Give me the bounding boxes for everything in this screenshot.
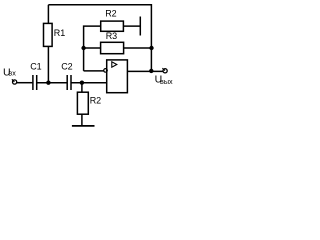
svg-text:R1: R1 xyxy=(54,28,66,38)
wire: inverting-node vertical (feedback branches) xyxy=(84,26,101,71)
svg-text:C2: C2 xyxy=(61,61,73,71)
wire: R2 bottom lead to ground xyxy=(81,114,83,126)
wire: op-amp output to terminal xyxy=(127,70,162,72)
resistor R2 (feedback, top) xyxy=(101,21,124,31)
wire: to inverting input xyxy=(84,70,104,72)
svg-text:R3: R3 xyxy=(106,31,118,41)
svg-text:вых: вых xyxy=(160,77,173,86)
terminal: input U_vx xyxy=(13,80,17,84)
wire: input to C1 xyxy=(17,82,33,84)
resistor R3 xyxy=(101,42,124,53)
node: junction R3 tap on inverting branch xyxy=(81,46,85,50)
node: junction C2 / R2 shunt xyxy=(80,81,84,85)
op-amp U1 inverting input bubble xyxy=(104,69,108,73)
capacitor C1 xyxy=(32,75,34,90)
terminal: output U_vyx xyxy=(163,69,167,73)
wire: R1 top lead xyxy=(47,5,49,24)
op-amp U1 body xyxy=(107,60,128,93)
resistor R2 (shunt to ground) xyxy=(77,92,88,114)
capacitor C2 xyxy=(66,75,68,90)
svg-text:вх: вх xyxy=(8,69,16,78)
wire: R2 bottom top lead xyxy=(81,83,83,93)
capacitor plate (series capacitor in R2 feedback branch) xyxy=(139,17,141,36)
wire: top feedback rail xyxy=(48,5,151,71)
wire: C2 to op-amp noninverting input xyxy=(71,82,106,84)
op-amp U1 amplifier triangle mark xyxy=(112,62,117,67)
wire: R3 right lead xyxy=(124,47,152,49)
resistor R1 xyxy=(44,23,53,46)
node: junction output rail / output wire xyxy=(149,69,153,73)
svg-text:R2: R2 xyxy=(105,8,117,18)
wire: R2 feedback right lead xyxy=(123,25,140,27)
svg-text:C1: C1 xyxy=(30,61,42,71)
wire: R3 left lead xyxy=(84,47,101,49)
node: junction R3 / output rail xyxy=(149,46,153,50)
node: junction R1 / C1 / C2 xyxy=(46,81,50,85)
wire: C1 to C2 xyxy=(37,82,67,84)
ground xyxy=(72,125,95,127)
wire: R1 bottom lead xyxy=(47,46,49,83)
svg-text:R2: R2 xyxy=(90,96,102,106)
